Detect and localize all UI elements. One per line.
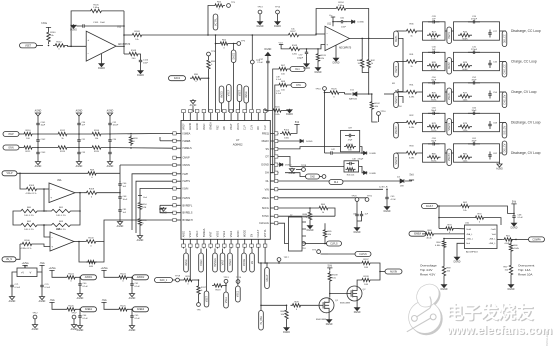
wire ladder mid6 [103, 147, 173, 149]
svg-text:DAC0: DAC0 [232, 52, 235, 59]
connector J2 [289, 215, 307, 252]
svg-text:DNI: DNI [400, 186, 404, 188]
svg-text:-5Va: -5Va [40, 262, 46, 265]
RC network box1 row5 [423, 138, 446, 163]
test point TP18 [300, 242, 306, 250]
resistor R143b [124, 50, 140, 60]
svg-text:ISVNS: ISVNS [183, 197, 191, 200]
wire R66b down [510, 253, 512, 263]
wire DAC2 node [203, 71, 209, 112]
svg-text:DL2: DL2 [334, 182, 339, 184]
test point TP17 [277, 257, 289, 263]
svg-text:CHG_CC: CHG_CC [503, 64, 506, 74]
test point TP19 [173, 276, 181, 282]
wire long pill 3 [236, 249, 241, 303]
net pill VE_N left [2, 257, 16, 262]
resistor R01 row2 [404, 54, 419, 68]
wire SS to C87 box [279, 147, 341, 149]
svg-text:−: − [87, 52, 89, 56]
svg-text:VSE1: VSE1 [223, 230, 226, 237]
svg-text:R119: R119 [215, 290, 221, 292]
RC network box1 row1 [423, 16, 446, 41]
svg-text:78.7k: 78.7k [431, 130, 437, 132]
svg-text:5Vd: 5Vd [409, 175, 414, 177]
svg-text:ISVP: ISVP [183, 173, 189, 176]
net pill ISET1 row1 [394, 31, 399, 47]
ground DGND U11 [333, 45, 340, 64]
net pill FAULT below [265, 263, 270, 289]
svg-text:DGND: DGND [306, 141, 313, 143]
wire U12 pin3 [443, 238, 464, 240]
svg-text:DGND: DGND [307, 230, 314, 232]
net pill CLPLN [321, 252, 372, 257]
capacitor C71 [10, 272, 20, 290]
svg-text:R109: R109 [89, 189, 95, 191]
ground AGND C71 [9, 290, 16, 303]
wire long pill 2 [224, 283, 229, 308]
power Vcc flag U11 [329, 15, 335, 26]
wire U9B feedback [79, 242, 97, 263]
svg-text:10pF: 10pF [41, 125, 46, 127]
svg-text:VSET: VSET [189, 230, 192, 237]
test point TP21 [365, 196, 373, 202]
svg-text:EN: EN [250, 234, 253, 238]
diode D11 [345, 90, 358, 101]
ground DGND Q2 [354, 301, 361, 314]
svg-text:VCLP: VCLP [6, 173, 12, 175]
svg-text:DGND: DGND [508, 289, 515, 291]
wire R36 to box1 row1 [419, 30, 423, 32]
net pill DIS_CV row5 [502, 141, 507, 155]
svg-text:OutA: OutA [466, 228, 471, 231]
wire R31 to box1 row3 [419, 91, 423, 93]
svg-text:R46 10k: R46 10k [347, 175, 354, 177]
svg-text:4.02k: 4.02k [274, 114, 280, 116]
svg-text:BVMEA: BVMEA [203, 228, 206, 237]
resistor R6M vertical [303, 208, 312, 222]
wire R109 to IC [99, 189, 121, 194]
net pill VINT below IC [220, 249, 225, 273]
svg-text:4.64k: 4.64k [435, 245, 441, 247]
wire ladder row2 [19, 147, 22, 149]
test point TP20 [351, 196, 359, 202]
svg-text:CLV: CLV [264, 125, 267, 130]
svg-text:+: + [87, 38, 89, 42]
svg-text:+12Va: +12Va [49, 267, 56, 270]
svg-text:VSET1: VSET1 [448, 92, 451, 100]
svg-text:R124: R124 [68, 273, 74, 275]
svg-text:604K: 604K [462, 39, 468, 41]
resistor R117 vertical [197, 284, 207, 296]
svg-text:DGND: DGND [283, 332, 290, 334]
resistor R102 FREQ [280, 121, 300, 140]
capacitor column C52 [107, 110, 119, 168]
ground DGND C60 [347, 20, 364, 24]
capacitor column C101 [35, 110, 46, 168]
svg-text:78.7k: 78.7k [431, 161, 437, 163]
resistor R65 vertical [323, 208, 335, 239]
svg-text:VSE0: VSE0 [229, 259, 232, 266]
svg-text:0.1uF: 0.1uF [276, 93, 282, 95]
svg-text:VSET3: VSET3 [395, 156, 398, 164]
svg-text:AGND: AGND [160, 212, 167, 215]
svg-text:TP17: TP17 [284, 257, 290, 259]
IC bottom pins [182, 228, 267, 248]
test point TP14 [275, 7, 281, 14]
wire box2 out row1 [500, 30, 507, 32]
ground AGND row5 [496, 162, 503, 170]
net pill VSET1 row3 [394, 92, 399, 108]
decoupling AVEE1 [49, 299, 96, 332]
test point TP13b [223, 277, 229, 283]
svg-text:12.8V_R: 12.8V_R [379, 187, 388, 189]
resistor R139 vertical [328, 271, 338, 283]
net pill BVMEA below IC [213, 249, 218, 273]
wire U12 outB right [497, 238, 502, 240]
wire U11 feedback [316, 9, 369, 40]
ground DGND C37 top [265, 49, 272, 57]
svg-text:R102: R102 [284, 129, 290, 131]
resistor R62 [17, 221, 41, 231]
svg-text:0.1uF: 0.1uF [518, 217, 524, 219]
svg-text:0.1uF: 0.1uF [135, 318, 141, 320]
svg-text:DGND: DGND [354, 232, 361, 234]
capacitor C57 [297, 49, 308, 60]
wire bus down to IC [215, 34, 217, 112]
svg-text:FREQ: FREQ [262, 132, 269, 135]
svg-text:TP20: TP20 [351, 196, 357, 198]
resistor R64 [279, 204, 330, 214]
svg-text:DAC_1: DAC_1 [160, 279, 168, 282]
test point TP7 [230, 41, 246, 46]
resistor R73b vertical [504, 263, 513, 277]
svg-text:Trip 4.0V: Trip 4.0V [420, 268, 433, 272]
capacitor C46 [118, 181, 127, 188]
ground DGND C110 [137, 65, 144, 77]
net pill EN below IC [250, 249, 255, 273]
ground DGND DMAX arrow [279, 139, 313, 143]
wire long pill 1 [204, 249, 209, 308]
wire VE_N [16, 244, 20, 259]
svg-text:VSE0: VSE0 [216, 230, 219, 237]
wire R46 right [97, 242, 104, 263]
resistor R42 vertical [367, 38, 375, 69]
net label DAC2 pill [169, 76, 186, 81]
test point TP5 [227, 2, 236, 7]
wire ladder mid5 [103, 133, 173, 135]
svg-text:TP28: TP28 [301, 165, 307, 167]
svg-text:VCCS: VCCS [237, 123, 240, 130]
svg-text:AGND: AGND [129, 297, 136, 300]
resistor R112 [56, 130, 69, 140]
svg-text:0.1uF: 0.1uF [135, 286, 141, 288]
ground DGND C57 [303, 57, 310, 70]
net pill MODE below IC [242, 249, 247, 273]
svg-text:AGND: AGND [9, 300, 16, 303]
resistor R07 [277, 65, 289, 76]
svg-text:MODE: MODE [244, 229, 247, 237]
svg-text:AGND: AGND [77, 329, 84, 332]
transistor Q1 BSS138W [316, 298, 339, 321]
power -5Va out [37, 262, 45, 272]
wire R102b down [372, 111, 378, 122]
svg-text:BAT54S: BAT54S [349, 97, 358, 100]
ground AGND BVREFL [160, 207, 167, 215]
svg-text:VSET2: VSET2 [448, 122, 451, 130]
svg-text:CLFLG: CLFLG [330, 243, 338, 245]
svg-text:78.7k: 78.7k [431, 100, 437, 102]
svg-text:TP14: TP14 [236, 277, 242, 279]
resistor R106 [20, 240, 50, 250]
IC top pins [182, 110, 267, 131]
wire ladder mid3 [69, 133, 90, 135]
svg-text:ADCMP343: ADCMP343 [466, 250, 478, 253]
wire DH net right [279, 180, 346, 182]
svg-text:-5Va: -5Va [102, 299, 108, 302]
ground DGND pin [280, 163, 292, 167]
capacitor C47 [118, 188, 128, 201]
resistor R70 [474, 214, 486, 224]
capacitor C110 [139, 54, 149, 65]
svg-text:R145: R145 [274, 107, 280, 109]
resistor R143 U11 [287, 45, 302, 56]
net pill DAC0 top [231, 44, 236, 113]
svg-text:−: − [50, 187, 52, 191]
wire R143 to plus [302, 45, 325, 50]
svg-text:5Vd: 5Vd [295, 121, 300, 124]
svg-text:+INB_L: +INB_L [489, 243, 497, 245]
svg-text:DGND: DGND [454, 261, 461, 263]
net pill ISMEA comparator [409, 231, 426, 236]
net pill AVEE top [244, 86, 249, 112]
svg-text:ISET1: ISET1 [395, 35, 398, 42]
svg-text:DH2: DH2 [310, 176, 315, 178]
svg-text:R137: R137 [363, 259, 369, 261]
net pill VCTRL [213, 14, 218, 30]
resistor R140 vertical [41, 23, 51, 44]
svg-text:AGND: AGND [76, 165, 83, 168]
svg-text:R114: R114 [94, 130, 100, 132]
net pill VREF below IC [199, 249, 204, 273]
capacitor C70 [40, 272, 50, 290]
net pill VCLP left [2, 171, 17, 176]
wire FAULT rail [438, 205, 460, 207]
svg-text:DGND: DGND [265, 49, 272, 51]
svg-text:DGND: DGND [370, 153, 377, 155]
svg-text:5Vd: 5Vd [512, 200, 517, 203]
wire box2 out row3 [500, 91, 507, 93]
svg-text:DGND: DGND [441, 289, 448, 291]
svg-text:Overvoltage: Overvoltage [420, 264, 437, 268]
svg-text:VREF: VREF [200, 259, 203, 266]
wire output bus [144, 34, 286, 36]
wire R06 to bus [207, 6, 213, 36]
svg-text:U7: U7 [236, 138, 240, 142]
label Discharge, CV Loop row5 [511, 151, 541, 155]
net pill VSET top [237, 85, 242, 113]
svg-text:AVEE: AVEE [182, 230, 185, 237]
resistor R126 [325, 89, 345, 99]
svg-text:36pF: 36pF [472, 80, 478, 82]
wire R65 bottom [324, 239, 326, 244]
wire row3 input [396, 91, 404, 93]
decoupling AVEE2 [101, 299, 148, 332]
wire R32 to box1 row4 [419, 122, 423, 124]
svg-text:VREF: VREF [228, 89, 231, 96]
svg-text:R125: R125 [120, 305, 126, 307]
RC network box1 row3 [423, 77, 446, 102]
svg-text:ISMEA: ISMEA [210, 122, 213, 130]
test point TP6 [196, 296, 201, 312]
svg-text:AGND: AGND [137, 239, 144, 242]
svg-text:R123: R123 [120, 273, 126, 275]
ground DGND TP14 [274, 14, 281, 28]
op-amp U11 [325, 24, 352, 51]
svg-text:6.49k: 6.49k [409, 127, 415, 129]
wire VIN net [279, 188, 384, 190]
wire VDD rail [438, 206, 473, 229]
op-amp U13 [86, 26, 131, 61]
capacitor C80 [353, 201, 369, 219]
resistor R138 DNI [360, 272, 380, 286]
svg-text:0.1uF: 0.1uF [15, 287, 21, 289]
regulator U40 [17, 265, 37, 276]
wire U9B out [74, 241, 84, 243]
test point TP16 [377, 111, 387, 122]
svg-text:www.elecfans.com: www.elecfans.com [446, 323, 552, 337]
wire row1 input [396, 30, 404, 32]
wire pin2 stub [160, 137, 173, 141]
svg-text:AGND: AGND [189, 123, 192, 130]
ground DGND R145 [283, 109, 293, 116]
svg-text:VSE1: VSE1 [225, 296, 228, 303]
svg-text:VAI: VAI [223, 126, 226, 130]
wire R41 R42 join [362, 70, 369, 95]
svg-text:OutB: OutB [491, 228, 496, 231]
svg-text:VSET: VSET [25, 45, 32, 47]
svg-text:10nF: 10nF [341, 27, 347, 29]
svg-text:470pF: 470pF [358, 158, 364, 160]
svg-text:ISET2: ISET2 [448, 62, 451, 69]
wire R137 to minus [301, 33, 325, 35]
svg-text:ISVN: ISVN [8, 147, 14, 149]
svg-text:EN: EN [251, 261, 254, 265]
svg-text:AVEE1: AVEE1 [85, 308, 93, 311]
svg-text:R117: R117 [201, 287, 207, 289]
resistor R08 [277, 81, 289, 92]
resistor R60 [17, 207, 47, 217]
wire R62 right [471, 206, 514, 213]
svg-text:CLN: CLN [250, 125, 253, 130]
svg-text:DH: DH [265, 172, 269, 175]
net pill ISET2S row2 [447, 58, 452, 75]
wire R118 node [194, 279, 199, 284]
svg-text:46.4k: 46.4k [426, 238, 432, 240]
ground DGND opamp U13 [98, 54, 105, 70]
svg-text:SCFG: SCFG [262, 207, 269, 210]
svg-text:DGND: DGND [511, 227, 518, 229]
svg-text:DIS_CV: DIS_CV [503, 126, 506, 135]
svg-text:DNI: DNI [364, 267, 368, 269]
net pill VREF top [227, 85, 232, 113]
svg-text:R113: R113 [60, 151, 66, 153]
test point TP28 [289, 165, 307, 175]
test point TP10 [315, 87, 326, 94]
capacitor C60 [333, 18, 347, 29]
wire R152 to opamp [67, 45, 86, 47]
svg-text:VCTRL: VCTRL [214, 17, 217, 26]
svg-text:54.9k: 54.9k [431, 69, 437, 71]
wire R54 R55 [139, 211, 141, 217]
svg-text:Vref: Vref [143, 196, 147, 199]
wire U12 pin4 gnd [454, 243, 465, 263]
test point TP07 [71, 313, 77, 319]
capacitor C105 [79, 22, 125, 28]
wire CLFLAG net [279, 223, 302, 243]
svg-text:AUXIN: AUXIN [390, 270, 397, 273]
wire box2 out row5 [500, 152, 507, 154]
svg-text:ADCMP670: ADCMP670 [339, 47, 352, 50]
net pill DH1 [289, 83, 306, 88]
svg-text:AVDD: AVDD [237, 230, 240, 237]
svg-text:DGND: DGND [274, 26, 281, 28]
svg-text:DAC2: DAC2 [174, 77, 181, 80]
svg-text:4.99k 0.1%: 4.99k 0.1% [26, 193, 37, 195]
svg-text:0.1uF: 0.1uF [276, 79, 282, 81]
wire ladder mid4 [69, 147, 90, 149]
resistor R54 vertical [138, 201, 147, 211]
resistor R36 row1 [404, 24, 419, 38]
svg-text:36pF: 36pF [472, 110, 478, 112]
net pill VSET3 row5 [394, 153, 399, 169]
label overvoltage [420, 264, 437, 277]
resistor R133 vertical [316, 49, 326, 63]
wire R63 right [75, 210, 81, 225]
svg-text:C110: C110 [143, 60, 149, 62]
resistor R90 [190, 74, 203, 83]
ground DGND box2 arrow [359, 166, 377, 174]
net label VSET input pill [20, 43, 37, 48]
svg-text:U13: U13 [117, 26, 122, 28]
svg-text:IN_PAK: IN_PAK [260, 316, 263, 325]
resistor R06 top [213, 2, 225, 11]
svg-text:56pF: 56pF [431, 80, 437, 82]
resistor R66 vertical [281, 305, 289, 321]
wire R33 to box1 row5 [419, 152, 423, 154]
svg-text:DL1: DL1 [295, 69, 300, 71]
svg-text:AVDD: AVDD [220, 91, 223, 98]
wire VCLP [17, 173, 86, 175]
wire U13 output [116, 45, 124, 47]
svg-text:−: − [51, 236, 53, 240]
svg-text:U9A: U9A [57, 179, 62, 182]
svg-text:DNI: DNI [364, 284, 368, 286]
svg-text:DNI: DNI [348, 150, 352, 152]
resistor R33 row5 [404, 146, 419, 160]
transistor Q2 BSS138W [340, 286, 366, 305]
wire R139 to gates [329, 283, 347, 298]
svg-text:+12Va: +12Va [101, 267, 108, 270]
wire R58 to caps [98, 165, 173, 182]
svg-text:VIN: VIN [265, 188, 269, 191]
resistor R68 [422, 230, 465, 240]
svg-text:TP16: TP16 [380, 111, 386, 113]
power 5Vd U12 [511, 200, 516, 214]
wire U9A feedback [44, 189, 80, 211]
svg-text:10K 0.1%: 10K 0.1% [24, 215, 34, 217]
svg-text:10nF: 10nF [100, 22, 106, 24]
resistor R73 [439, 225, 465, 235]
